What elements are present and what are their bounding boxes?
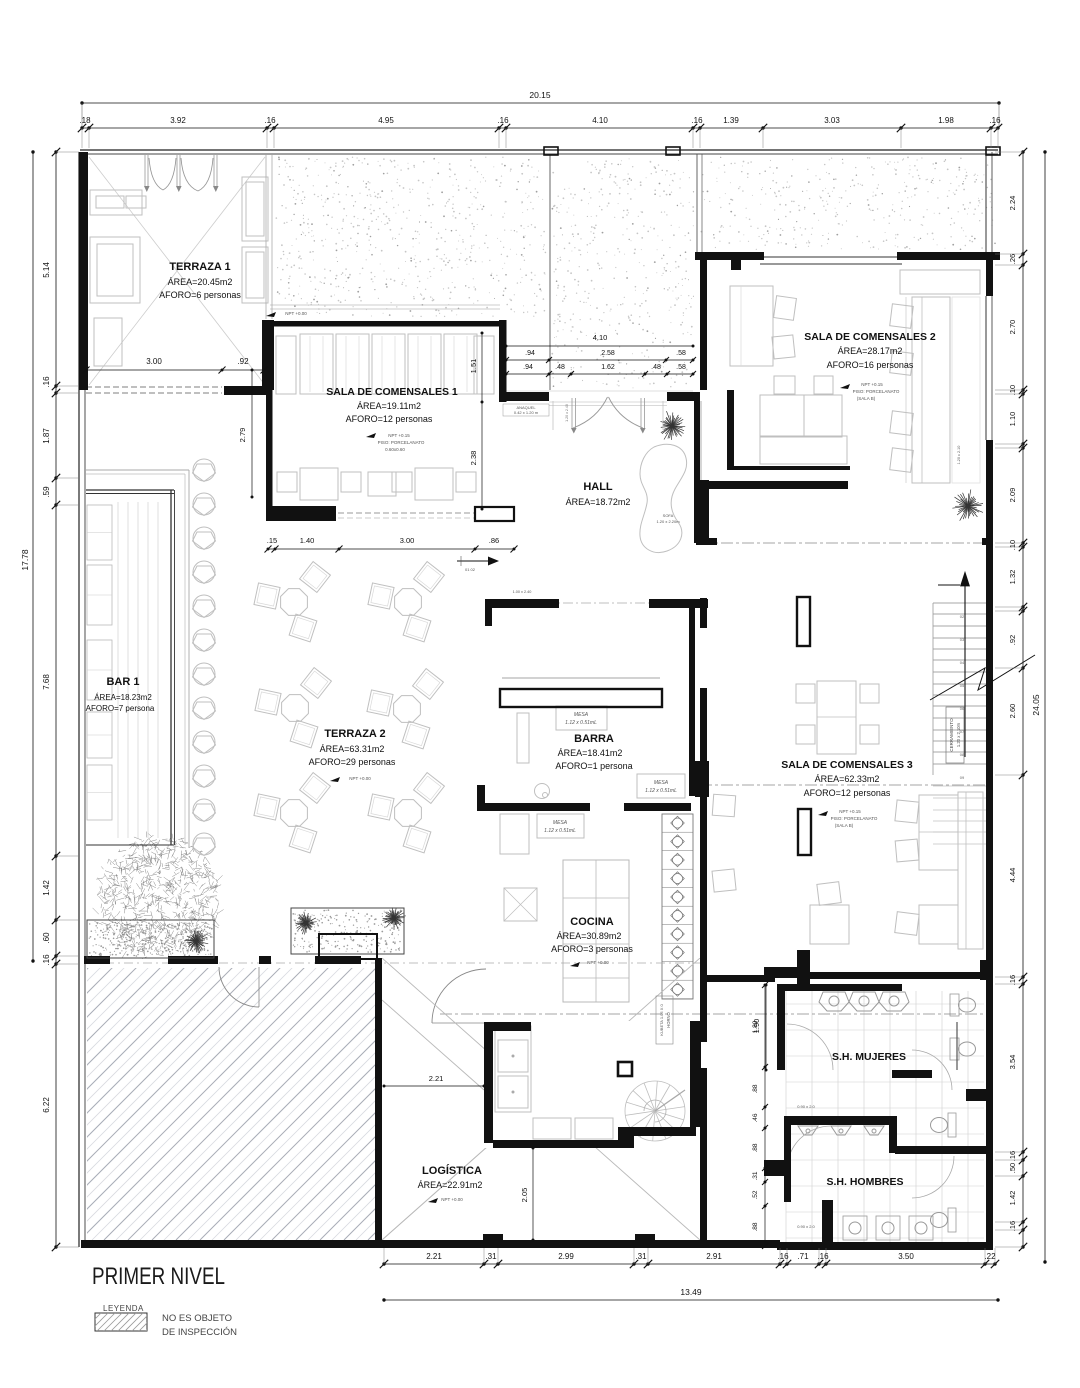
svg-text:1.39: 1.39	[723, 116, 739, 125]
corridor wall x707-775 bottom	[700, 975, 775, 982]
sala1 top wall	[266, 321, 506, 327]
svg-text:ÁREA=18.23m2: ÁREA=18.23m2	[94, 693, 152, 702]
dash-dot barra top	[545, 602, 700, 604]
svg-text:3.00: 3.00	[400, 536, 415, 545]
svg-text:.31: .31	[752, 1171, 759, 1180]
sala1 bench row	[276, 336, 296, 394]
dash-dot line NPT sala2-sala3	[700, 542, 990, 544]
svg-text:1.12 x 0.51mL: 1.12 x 0.51mL	[645, 788, 677, 794]
bath mujeres toilets	[950, 994, 959, 1016]
svg-text:09: 09	[960, 775, 965, 780]
cocina stove	[504, 888, 537, 921]
svg-text:HALL: HALL	[583, 481, 613, 493]
svg-text:2.24: 2.24	[1008, 196, 1017, 211]
npt logistica	[428, 1198, 438, 1203]
barra bottom wall right	[624, 803, 691, 811]
svg-text:ÁREA=62.33m2: ÁREA=62.33m2	[815, 774, 880, 784]
npt sala3	[818, 811, 828, 816]
courtyard divider x550	[549, 154, 551, 390]
svg-text:.50: .50	[1008, 1163, 1017, 1173]
stipple planter A bottom-left	[89, 921, 213, 956]
sala3 left wall	[700, 688, 707, 975]
stairs step numbers	[960, 614, 965, 780]
svg-text:NPT +0.15: NPT +0.15	[861, 382, 883, 387]
sala2 tables center	[760, 395, 804, 437]
svg-text:1.62: 1.62	[601, 364, 615, 371]
dim 1.90 bath	[765, 985, 767, 1070]
right outer wall sala3	[986, 520, 993, 1248]
stairs break line	[930, 655, 1035, 700]
hall top wall left	[501, 392, 549, 401]
barra bottom wall left	[477, 803, 590, 811]
svg-text:NPT +0.15: NPT +0.15	[839, 809, 861, 814]
npt sala1	[366, 433, 376, 438]
svg-text:3.03: 3.03	[824, 116, 840, 125]
svg-text:.88: .88	[752, 1222, 759, 1231]
dim left chain	[55, 152, 57, 1247]
svg-text:2.79: 2.79	[238, 428, 247, 443]
sala2 left wall	[700, 258, 707, 390]
tile grid bathrooms	[786, 991, 984, 1242]
svg-text:20.15: 20.15	[529, 90, 551, 100]
svg-text:1.10: 1.10	[1008, 412, 1017, 427]
svg-text:.46: .46	[752, 1113, 759, 1122]
svg-text:NPT +0.15: NPT +0.15	[388, 433, 410, 438]
svg-text:ÁREA=28.17m2: ÁREA=28.17m2	[838, 346, 903, 356]
dim bottom chain	[384, 1263, 995, 1265]
svg-text:2.21: 2.21	[426, 1252, 442, 1261]
svg-text:ÁREA=63.31m2: ÁREA=63.31m2	[320, 744, 385, 754]
barra top wall left	[485, 599, 559, 608]
svg-text:(SALA B): (SALA B)	[857, 396, 876, 401]
dash-dot line cocina	[440, 1013, 984, 1015]
svg-text:CERRAMIENTO: CERRAMIENTO	[949, 718, 954, 752]
dim 2.05 logistica	[532, 1148, 534, 1240]
svg-text:AFORO=1 persona: AFORO=1 persona	[555, 761, 632, 771]
svg-text:.18: .18	[79, 116, 91, 125]
svg-text:LEYENDA: LEYENDA	[103, 1304, 144, 1313]
planterA border	[87, 920, 214, 958]
svg-text:.16: .16	[42, 954, 51, 966]
svg-text:1.40: 1.40	[300, 536, 315, 545]
hall sofa	[640, 444, 687, 552]
terraza1 right wall upper	[262, 320, 274, 390]
sala2 interior step wall	[730, 466, 850, 470]
svg-text:13.49: 13.49	[680, 1287, 702, 1297]
sala1 tables	[300, 468, 338, 500]
hall right wall	[694, 392, 700, 543]
svg-text:3.92: 3.92	[170, 116, 186, 125]
svg-text:2.70: 2.70	[1008, 320, 1017, 335]
dim left overall 17.78	[32, 152, 34, 961]
barra top wall right	[649, 599, 708, 608]
dim sala1 bottom	[268, 548, 514, 550]
right outer wall mid	[986, 440, 993, 520]
barra sink	[535, 784, 550, 799]
svg-text:.59: .59	[42, 486, 51, 498]
svg-text:.16: .16	[42, 376, 51, 388]
svg-text:4.95: 4.95	[378, 116, 394, 125]
svg-text:ÁREA=22.91m2: ÁREA=22.91m2	[418, 1180, 483, 1190]
cocina bottom wall right	[634, 1127, 696, 1136]
cocina bottom wall	[493, 1140, 622, 1148]
left boundary double line	[78, 152, 80, 1247]
svg-text:SOFA: SOFA	[663, 513, 674, 518]
svg-text:.92: .92	[237, 357, 249, 366]
svg-text:S.H. HOMBRES: S.H. HOMBRES	[826, 1176, 903, 1188]
bar inner lines	[117, 502, 119, 838]
svg-text:1.32: 1.32	[1008, 570, 1017, 585]
svg-text:1.20 x 2.10m: 1.20 x 2.10m	[956, 722, 961, 747]
hall entry threshold	[549, 401, 667, 403]
svg-text:6.22: 6.22	[42, 1097, 51, 1113]
sala2 lower wall	[707, 481, 848, 489]
svg-text:AFORO=16 personas: AFORO=16 personas	[827, 360, 914, 370]
svg-text:PISO: PORCELANATO: PISO: PORCELANATO	[378, 440, 425, 445]
svg-text:KUBETA 1.05 X 0: KUBETA 1.05 X 0	[659, 1003, 664, 1035]
stairs treads	[933, 603, 986, 775]
sala2 interior wall vertical	[727, 390, 734, 470]
svg-text:.16: .16	[691, 116, 703, 125]
svg-text:.94: .94	[525, 350, 535, 357]
plants planterB	[296, 912, 317, 935]
svg-text:1.98: 1.98	[938, 116, 954, 125]
svg-text:.16: .16	[989, 116, 1001, 125]
sala1 bottom dashed opening	[338, 512, 475, 514]
svg-text:AFORO=6 personas: AFORO=6 personas	[159, 290, 241, 300]
svg-text:06: 06	[960, 706, 965, 711]
svg-text:.10: .10	[1008, 540, 1017, 550]
svg-text:2.05: 2.05	[520, 1188, 529, 1203]
sala3 table cluster upper	[817, 681, 856, 754]
bath urinals	[798, 1126, 818, 1135]
terraza1 sofas right	[242, 177, 268, 241]
svg-text:4.10: 4.10	[593, 333, 608, 342]
bath middle wall	[784, 1116, 895, 1125]
svg-text:.71: .71	[797, 1252, 809, 1261]
svg-text:08: 08	[960, 752, 965, 757]
svg-text:.31: .31	[635, 1252, 647, 1261]
svg-text:ÁREA=18.41m2: ÁREA=18.41m2	[558, 748, 623, 758]
dim 2.21 logistica	[384, 1085, 484, 1087]
terraza1 top door jambs	[144, 155, 146, 186]
svg-text:5.14: 5.14	[42, 262, 51, 278]
cocina door arc	[432, 969, 486, 1023]
bath hombres sinks	[843, 1216, 867, 1240]
svg-text:1.20 x 2.20m: 1.20 x 2.20m	[656, 519, 680, 524]
sala2 right banquette	[912, 297, 950, 483]
section arrow	[457, 560, 488, 562]
right outer wall upper thick	[986, 260, 993, 296]
npt terraza1	[266, 312, 276, 317]
sala1 bottom wall left	[266, 506, 336, 521]
svg-text:.48: .48	[651, 364, 661, 371]
horno label	[656, 996, 673, 1044]
npt terraza2	[330, 777, 340, 782]
dim top overall 20.15	[82, 102, 999, 104]
svg-text:.88: .88	[752, 1084, 759, 1093]
svg-text:ÁREA=20.45m2: ÁREA=20.45m2	[168, 277, 233, 287]
svg-text:0.42 x 1.20 m: 0.42 x 1.20 m	[514, 410, 539, 415]
svg-text:.48: .48	[555, 364, 565, 371]
svg-text:2.99: 2.99	[558, 1252, 574, 1261]
bar counter barra	[500, 689, 662, 707]
terraza1 bottom-right L wall	[224, 386, 268, 395]
svg-text:.88: .88	[752, 1143, 759, 1152]
barra mesa boxes	[556, 706, 607, 730]
sala2 window band top	[760, 256, 902, 258]
terraza1 right boundary thin	[265, 155, 267, 319]
bath left wall upper	[777, 984, 785, 1070]
svg-text:2.91: 2.91	[706, 1252, 722, 1261]
cocina bottom step	[618, 1127, 634, 1148]
dim right chain	[1022, 152, 1024, 1247]
stairs up arrow	[964, 578, 966, 757]
svg-text:AFORO=29 personas: AFORO=29 personas	[309, 757, 396, 767]
hall top wall right	[667, 392, 695, 401]
npt cocina	[570, 962, 580, 967]
svg-text:05: 05	[960, 683, 965, 688]
bath door arcs	[787, 1024, 833, 1070]
cocina right wall lower	[690, 1021, 701, 1127]
dim right overall 24.05	[1044, 152, 1046, 1262]
svg-text:.16: .16	[817, 1252, 829, 1261]
svg-text:2.60: 2.60	[1008, 704, 1017, 719]
svg-text:04: 04	[960, 660, 965, 665]
dim bottom overall 13.49	[384, 1299, 998, 1301]
svg-text:DE INSPECCIÓN: DE INSPECCIÓN	[162, 1327, 237, 1338]
planterB border	[291, 908, 404, 954]
svg-text:.16: .16	[1008, 1221, 1017, 1231]
svg-text:AFORO=12 personas: AFORO=12 personas	[804, 788, 891, 798]
svg-text:SALA DE COMENSALES 1: SALA DE COMENSALES 1	[326, 386, 458, 398]
svg-text:MESA: MESA	[654, 780, 669, 786]
svg-text:4.10: 4.10	[592, 116, 608, 125]
bath right wall notch	[966, 1089, 993, 1101]
bath middle jog	[889, 1116, 897, 1153]
svg-text:1.42: 1.42	[1008, 1191, 1017, 1206]
svg-text:.94: .94	[523, 364, 533, 371]
svg-text:.22: .22	[984, 1252, 996, 1261]
terraza1 door scallop arcs	[149, 158, 163, 190]
bath mujeres sinks	[819, 992, 849, 1011]
svg-text:TERRAZA 2: TERRAZA 2	[324, 728, 385, 740]
svg-text:.16: .16	[497, 116, 509, 125]
svg-text:.60: .60	[42, 932, 51, 944]
terraza1 sofas left	[90, 190, 142, 215]
bath left wall lower	[784, 1125, 791, 1202]
sala2 lower-left wall	[696, 480, 709, 545]
dim 4.10 entry	[506, 345, 693, 347]
svg-text:MESA: MESA	[553, 820, 568, 826]
sala3 mampara 2	[798, 809, 811, 855]
svg-text:2.09: 2.09	[1008, 488, 1017, 503]
logistica left wall	[375, 958, 382, 1247]
stipple texture courtyard top	[276, 157, 996, 389]
tree bottom-left	[93, 832, 224, 959]
sala2 top bench	[900, 270, 980, 294]
bath hombres stub	[822, 1200, 833, 1242]
right wall jamb sala3	[980, 960, 993, 980]
svg-text:07: 07	[960, 729, 965, 734]
svg-text:.58: .58	[676, 364, 686, 371]
svg-text:3.54: 3.54	[1008, 1055, 1017, 1070]
dim 2.38	[481, 402, 483, 509]
sala2 top wall right	[897, 252, 1000, 260]
svg-text:AFORO=12 personas: AFORO=12 personas	[346, 414, 433, 424]
svg-text:MESA: MESA	[574, 712, 589, 718]
sala3 right banquette	[958, 792, 983, 949]
reception desk	[475, 507, 514, 521]
sala2 window right side	[985, 296, 987, 440]
svg-text:NPT +0.00: NPT +0.00	[441, 1197, 463, 1202]
dash-dot line sala3 lower	[700, 784, 990, 786]
sala2 top wall left	[695, 252, 764, 260]
svg-text:1.42: 1.42	[42, 880, 51, 896]
svg-text:02: 02	[960, 614, 965, 619]
svg-text:AFORO=3 personas: AFORO=3 personas	[551, 944, 633, 954]
svg-text:.26: .26	[1008, 254, 1017, 264]
sala3 left wall stub	[700, 598, 707, 628]
sala2 banquette back line	[905, 297, 907, 483]
anaquel label	[503, 404, 549, 416]
svg-text:NPT +0.00: NPT +0.00	[587, 960, 609, 965]
svg-text:2.21: 2.21	[429, 1074, 444, 1083]
svg-text:NPT +0.00: NPT +0.00	[285, 311, 307, 316]
bar counter outline	[86, 489, 174, 491]
sala3 black mampara	[797, 597, 810, 646]
cocina column	[618, 1062, 632, 1076]
svg-text:0.90 x 2.0: 0.90 x 2.0	[797, 1104, 815, 1109]
dim top chain	[82, 127, 999, 129]
svg-text:.92: .92	[1008, 635, 1017, 645]
svg-text:3.50: 3.50	[898, 1252, 914, 1261]
svg-text:01 02: 01 02	[465, 567, 476, 572]
terraza1 low wall dashed	[86, 386, 222, 388]
corridor left wall lower	[700, 982, 707, 1042]
svg-text:.58: .58	[676, 350, 686, 357]
svg-text:LOGÍSTICA: LOGÍSTICA	[422, 1164, 482, 1177]
svg-text:HORNO: HORNO	[666, 1011, 671, 1027]
svg-text:1.80: 1.80	[752, 1020, 759, 1033]
svg-text:PISO: PORCELANATO: PISO: PORCELANATO	[831, 816, 878, 821]
svg-text:1.51: 1.51	[469, 359, 478, 374]
svg-text:NPT +0.00: NPT +0.00	[349, 776, 371, 781]
svg-text:NO ES OBJETO: NO ES OBJETO	[162, 1313, 232, 1324]
plant planterA	[184, 930, 208, 953]
sala1 right portal wall	[499, 320, 507, 402]
svg-text:PISO: PORCELANATO: PISO: PORCELANATO	[853, 389, 900, 394]
bar shelf boxes	[87, 505, 112, 560]
bath hombres toilets	[948, 1113, 956, 1137]
stipple planter B bottom-center	[292, 909, 401, 953]
dash ref line terraza2 bottom	[86, 962, 700, 964]
dim terraza1 bottom	[86, 369, 264, 371]
hall entry door arcs	[573, 397, 608, 428]
svg-text:PRIMER NIVEL: PRIMER NIVEL	[92, 1263, 225, 1290]
bar stools	[193, 459, 215, 481]
dim entry chain3	[506, 373, 693, 375]
barra right jamb	[695, 761, 709, 797]
svg-text:3.00: 3.00	[146, 357, 162, 366]
svg-text:.16: .16	[1008, 1151, 1017, 1161]
corridor bottom strip	[700, 1240, 780, 1248]
building bottom wall	[81, 1240, 701, 1248]
jamb top x545	[544, 147, 558, 155]
cocina top-left jamb	[484, 1022, 531, 1031]
cocina island	[563, 860, 629, 1002]
horno strip	[662, 814, 693, 999]
svg-text:.16: .16	[264, 116, 276, 125]
cerramiento label box	[946, 707, 964, 763]
bath middle wall right	[895, 1146, 992, 1154]
dim entry chain2	[506, 359, 693, 361]
terraza2 bottom wall stubs	[84, 956, 110, 964]
bath left stub	[764, 1160, 791, 1176]
svg-text:1.00 x 2.40: 1.00 x 2.40	[513, 590, 532, 594]
svg-text:.16: .16	[1008, 975, 1017, 985]
svg-text:7.68: 7.68	[42, 674, 51, 690]
top facade thin lines	[80, 149, 998, 151]
svg-text:2.38: 2.38	[469, 451, 478, 466]
svg-text:ÁREA=19.11m2: ÁREA=19.11m2	[357, 401, 421, 411]
barra door leaf	[517, 713, 529, 763]
cocina left wall lower	[484, 1022, 493, 1143]
svg-text:.52: .52	[752, 1190, 759, 1199]
courtyard divider x697	[696, 154, 698, 253]
bath bottom wall	[777, 1242, 993, 1250]
sala2 booth left	[730, 286, 773, 366]
barra right wall	[689, 608, 695, 796]
logistica door arc	[219, 967, 259, 1007]
sala3 bottom-left jog	[764, 967, 798, 978]
dim 2.79	[251, 370, 253, 497]
svg-text:24.05: 24.05	[1031, 694, 1041, 716]
svg-text:ÁREA=30.89m2: ÁREA=30.89m2	[557, 931, 622, 941]
barra bottom-left L	[477, 785, 485, 811]
cocina counters lower	[495, 1026, 531, 1112]
svg-text:COCINA: COCINA	[570, 916, 613, 928]
svg-text:.86: .86	[489, 536, 499, 545]
svg-text:1.87: 1.87	[42, 428, 51, 444]
svg-text:17.78: 17.78	[20, 549, 30, 571]
dim bath left chain	[764, 985, 766, 1246]
svg-text:BAR 1: BAR 1	[106, 676, 139, 688]
sala1 window band	[270, 304, 500, 306]
terraza1 left wall	[79, 152, 88, 390]
svg-text:AFORO=7 persona: AFORO=7 persona	[86, 704, 155, 713]
svg-text:0.60x0.60: 0.60x0.60	[385, 447, 405, 452]
sala3 bottom wall	[808, 972, 990, 979]
svg-text:SALA DE COMENSALES 2: SALA DE COMENSALES 2	[804, 331, 936, 343]
svg-text:1.20 x 2.40: 1.20 x 2.40	[565, 404, 569, 422]
sala3 tables lower	[919, 795, 958, 870]
dim 1.51 portal	[481, 333, 483, 402]
svg-text:.31: .31	[485, 1252, 497, 1261]
svg-text:0.90 x 2.0: 0.90 x 2.0	[797, 1224, 815, 1229]
hall door jamb lines	[552, 401, 554, 430]
svg-text:SALA DE COMENSALES 3: SALA DE COMENSALES 3	[781, 759, 913, 771]
sala1 left wall	[266, 321, 273, 520]
sala2 chairs right	[890, 304, 914, 328]
svg-text:.15: .15	[267, 536, 277, 545]
svg-text:1.12 x 0.51mL: 1.12 x 0.51mL	[565, 720, 597, 726]
bottom wall stubs	[483, 1234, 503, 1241]
svg-text:.10: .10	[1008, 385, 1017, 395]
sala2 bottom banquette	[760, 436, 847, 464]
terraza1 X cross	[89, 157, 265, 385]
barra left jamb	[485, 599, 492, 626]
